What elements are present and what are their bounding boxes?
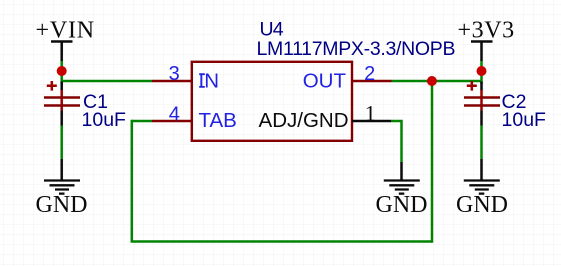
pin 4 TAB — [152, 103, 237, 132]
wire VIN rail upper — [60, 61, 63, 84]
svg-text:3: 3 — [169, 63, 180, 85]
pin 1 ADJ/GND — [259, 100, 391, 132]
wire TAB loop: left vertical — [131, 120, 134, 242]
wire OUT to 3V3 rail — [392, 80, 482, 83]
wire C1 to GND — [60, 126, 63, 160]
svg-text:IN: IN — [199, 70, 220, 93]
svg-text:ADJ/GND: ADJ/GND — [259, 109, 349, 132]
svg-text:+3V3: +3V3 — [458, 18, 515, 44]
wire TAB loop: bottom horizontal — [131, 240, 432, 243]
junction node OUT loop — [427, 76, 437, 86]
wire C2 to GND — [480, 126, 483, 160]
ground GND middle — [376, 162, 428, 218]
svg-text:10uF: 10uF — [502, 109, 547, 131]
ground GND right — [456, 159, 508, 218]
svg-text:4: 4 — [169, 103, 180, 125]
wire VIN to pin 3 — [62, 80, 152, 83]
wire TAB loop: right vertical — [431, 81, 434, 243]
junction node VIN — [57, 66, 67, 76]
regulator U4 body — [192, 62, 352, 141]
junction node 3V3 — [477, 66, 487, 76]
svg-text:GND: GND — [36, 192, 88, 218]
svg-text:OUT: OUT — [303, 70, 347, 93]
svg-text:GND: GND — [456, 192, 508, 218]
svg-text:+VIN: +VIN — [36, 18, 95, 44]
svg-text:LM1117MPX-3.3/NOPB: LM1117MPX-3.3/NOPB — [257, 38, 456, 60]
svg-text:1: 1 — [365, 100, 376, 125]
power flag +3V3 — [458, 18, 515, 62]
power flag +VIN — [36, 18, 95, 62]
capacitor C2 — [464, 81, 500, 126]
svg-text:TAB: TAB — [199, 109, 237, 132]
svg-text:GND: GND — [376, 192, 428, 218]
svg-text:2: 2 — [364, 63, 375, 85]
wire 3V3 rail upper — [480, 61, 483, 84]
pin 3 IN — [152, 63, 219, 93]
wire TAB loop: pin4 to left — [132, 120, 152, 123]
pin 2 OUT — [303, 63, 392, 93]
svg-text:10uF: 10uF — [82, 109, 127, 131]
capacitor C1 — [44, 81, 80, 126]
ground GND left — [36, 159, 88, 218]
wire pin1 to middle ground — [391, 120, 402, 162]
